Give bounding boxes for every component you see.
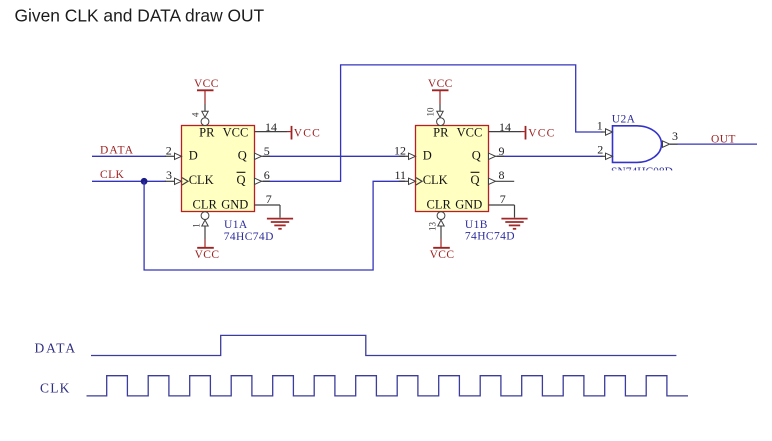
svg-text:5: 5 — [264, 144, 270, 158]
wire U1A Qbar (pin 6) up over to U2A pin 1 — [263, 65, 603, 181]
ground at U1B pin 7 — [501, 219, 527, 229]
svg-text:14: 14 — [499, 120, 511, 134]
U1B pin 8 stub (unconnected) — [489, 168, 515, 185]
svg-text:VCC: VCC — [428, 78, 453, 90]
svg-text:CLK: CLK — [40, 381, 71, 396]
VCC symbol at U1A pin 14 — [292, 126, 322, 140]
U2A pin 2 stub — [597, 142, 612, 159]
U1A pin 6 stub — [255, 168, 271, 185]
U2A pin 3 output stub — [663, 129, 679, 147]
flip-flop U1B 74HC74D — [416, 125, 489, 211]
svg-text:14: 14 — [265, 120, 277, 134]
svg-text:7: 7 — [266, 192, 272, 206]
svg-text:VCC: VCC — [528, 128, 555, 140]
wire U1B Q (pin 9) to U2A pin 2 — [497, 155, 603, 157]
svg-text:4: 4 — [191, 112, 201, 117]
U1A pin 14 stub — [255, 120, 291, 134]
svg-text:VCC: VCC — [430, 249, 455, 261]
svg-text:D: D — [189, 149, 198, 163]
svg-text:VCC: VCC — [195, 249, 220, 261]
U1A clock edge marker — [182, 178, 188, 185]
VCC symbol above U1A PR (pin 4) — [194, 78, 219, 112]
svg-text:U1A: U1A — [224, 219, 248, 231]
svg-text:10: 10 — [426, 107, 436, 117]
U1A pin 3 stub — [165, 168, 182, 185]
svg-text:CLK: CLK — [100, 169, 124, 181]
VCC symbol above U1B PR (pin 10) — [428, 78, 453, 112]
svg-text:13: 13 — [428, 222, 438, 232]
svg-text:6: 6 — [264, 168, 270, 182]
U1A pin 1 arrow and number — [192, 220, 209, 228]
svg-text:GND: GND — [221, 197, 248, 211]
svg-text:3: 3 — [166, 168, 172, 182]
svg-text:CLK: CLK — [189, 173, 214, 187]
U2A pin 1 stub — [597, 119, 613, 136]
U1A PR bubble — [201, 118, 209, 126]
U1A pin 7 stub — [255, 192, 281, 218]
svg-text:DATA: DATA — [100, 144, 134, 156]
svg-text:1: 1 — [597, 119, 603, 133]
svg-text:Given CLK and DATA draw OUT: Given CLK and DATA draw OUT — [15, 5, 265, 25]
svg-text:9: 9 — [499, 144, 505, 158]
U1B pin 11 stub — [394, 168, 415, 185]
wire U2A output to OUT — [670, 143, 757, 145]
svg-text:8: 8 — [499, 168, 505, 182]
U1A pin 4 arrow and number — [191, 111, 209, 117]
wire DATA to U1A pin 2 — [92, 155, 166, 157]
svg-text:74HC74D: 74HC74D — [224, 231, 274, 243]
U1B clock edge marker — [416, 178, 422, 185]
VCC symbol below U1B CLR (pin 13) — [430, 227, 455, 262]
svg-text:U2A: U2A — [612, 114, 636, 126]
VCC symbol at U1B pin 14 — [526, 126, 556, 140]
U1B pin 12 stub — [394, 143, 416, 159]
svg-text:Q: Q — [238, 149, 247, 163]
svg-text:11: 11 — [394, 168, 406, 182]
svg-text:GND: GND — [455, 197, 482, 211]
U1A pin 5 stub — [255, 144, 271, 160]
U1A pin 2 stub — [165, 143, 182, 159]
U1B pin 7 stub — [489, 192, 515, 218]
junction on CLK net — [141, 178, 148, 185]
waveform CLK trace — [87, 376, 689, 396]
svg-text:7: 7 — [500, 192, 506, 206]
svg-text:VCC: VCC — [294, 128, 321, 140]
svg-text:74HC74D: 74HC74D — [465, 231, 515, 243]
svg-text:2: 2 — [166, 143, 172, 157]
U1B CLR bubble — [437, 212, 445, 220]
U1B pin 13 arrow and number — [428, 220, 445, 231]
AND gate U2A — [612, 114, 662, 163]
svg-text:U1B: U1B — [465, 219, 488, 231]
svg-text:DATA: DATA — [35, 341, 78, 356]
U1B PR bubble — [437, 118, 445, 126]
svg-text:CLR: CLR — [193, 197, 218, 211]
U1B pin 9 stub — [489, 144, 505, 160]
U1B pin 10 arrow and number — [426, 107, 444, 117]
wire U1A Q (pin 5) to U1B D (pin 12) — [263, 155, 405, 157]
svg-text:PR: PR — [199, 125, 215, 139]
U1A CLR bubble — [201, 212, 209, 220]
svg-text:Q: Q — [236, 173, 245, 187]
VCC symbol below U1A CLR (pin 1) — [195, 227, 220, 262]
svg-text:D: D — [423, 149, 432, 163]
ground at U1A pin 7 — [267, 219, 293, 229]
svg-text:VCC: VCC — [223, 125, 249, 139]
wire CLK branch down and over to U1B pin 11 — [144, 181, 405, 270]
svg-text:3: 3 — [672, 129, 678, 143]
svg-text:CLR: CLR — [427, 197, 452, 211]
svg-text:Q: Q — [472, 149, 481, 163]
svg-text:Q: Q — [470, 173, 479, 187]
svg-text:1: 1 — [192, 223, 202, 228]
svg-text:OUT: OUT — [711, 133, 736, 145]
U2A value label SN74HC08D (clipped) — [598, 166, 693, 180]
flip-flop U1A 74HC74D — [182, 125, 255, 211]
wire CLK to U1A pin 3 — [92, 180, 166, 182]
svg-text:2: 2 — [597, 142, 603, 156]
svg-text:VCC: VCC — [457, 125, 483, 139]
svg-text:12: 12 — [394, 143, 406, 157]
waveform DATA trace — [91, 335, 676, 355]
svg-text:PR: PR — [433, 125, 449, 139]
svg-text:VCC: VCC — [194, 78, 219, 90]
svg-text:CLK: CLK — [423, 173, 448, 187]
U1B pin 14 stub — [489, 120, 525, 134]
